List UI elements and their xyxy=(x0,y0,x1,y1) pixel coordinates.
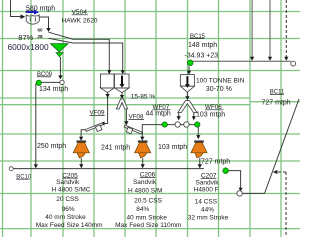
conveyor BC11 xyxy=(242,99,299,193)
arrowhead BC09 onto BC10 xyxy=(34,164,38,168)
arrowhead xyxy=(187,71,191,75)
surge bin right compartment xyxy=(115,74,130,93)
svg-text:100 TONNE BIN: 100 TONNE BIN xyxy=(196,78,245,85)
arrowhead xyxy=(120,95,124,99)
wire to C207 xyxy=(197,127,198,135)
arrowhead xyxy=(284,57,288,61)
arrowhead xyxy=(198,164,202,168)
wire WF06 right leg xyxy=(193,113,195,117)
label BC15 xyxy=(185,34,219,60)
crusher C205 cone xyxy=(73,140,89,158)
wire WF07 right leg to VF08 xyxy=(125,110,127,122)
arrowhead deck2 xyxy=(121,70,125,74)
dashed wire onto BC15 xyxy=(285,0,287,57)
arrowhead xyxy=(192,116,196,120)
wire drum to screen xyxy=(39,17,49,28)
label V504 xyxy=(62,9,98,25)
wire C207 discharge xyxy=(199,158,201,165)
label 580 mtph xyxy=(26,5,55,12)
arrowhead xyxy=(141,164,145,168)
label BC09 xyxy=(37,72,53,78)
label VF09 xyxy=(90,110,106,117)
green status dot BC10 discharge xyxy=(223,168,229,174)
label WF07 xyxy=(146,104,171,118)
label WF06 xyxy=(196,104,225,119)
svg-text:148 mtph: 148 mtph xyxy=(188,42,217,49)
svg-text:40 mm Stroke: 40 mm Stroke xyxy=(126,215,167,222)
feeder VF08 xyxy=(124,125,142,134)
feeder VF09 xyxy=(86,123,104,132)
svg-text:HAWK 2620: HAWK 2620 xyxy=(62,18,98,25)
splitter WF07 chute xyxy=(116,99,127,109)
svg-text:20 CSS: 20 CSS xyxy=(56,196,79,203)
svg-text:H 4800 S/MC: H 4800 S/MC xyxy=(51,187,90,194)
svg-text:727 mtph: 727 mtph xyxy=(262,100,291,107)
gate circle 2 xyxy=(184,122,189,127)
svg-text:87%: 87% xyxy=(18,33,33,42)
arrowhead onto C206 xyxy=(140,137,144,141)
arrowhead xyxy=(79,164,83,168)
BC09 head pulley xyxy=(60,80,64,84)
svg-text:H 4800 S/M: H 4800 S/M xyxy=(128,187,162,194)
svg-text:250 mtph: 250 mtph xyxy=(37,143,66,150)
svg-text:Max Feed Size 140mm: Max Feed Size 140mm xyxy=(36,222,103,229)
feed wire 2 onto BC15 xyxy=(269,0,271,57)
gate circle 1 xyxy=(175,122,180,127)
crusher C207 cone xyxy=(191,140,207,158)
conveyor BC10 xyxy=(13,168,204,170)
green dot gate left xyxy=(162,122,167,127)
label VF08 xyxy=(129,114,145,121)
svg-text:Max Feed Size 110mm: Max Feed Size 110mm xyxy=(115,222,181,229)
label BC11 xyxy=(262,90,291,107)
wire triangle to BC09 pulley xyxy=(59,57,61,76)
svg-text:6000x1800: 6000x1800 xyxy=(8,42,49,52)
arrowhead recycle xyxy=(273,170,278,174)
svg-text:14 CSS: 14 CSS xyxy=(195,198,218,205)
svg-text:15-85 %: 15-85 % xyxy=(131,93,156,100)
wire VF09 to C205 xyxy=(81,130,86,137)
label BC10 xyxy=(16,174,32,180)
svg-text:Sandvik: Sandvik xyxy=(56,179,80,186)
svg-text:H4800 F: H4800 F xyxy=(194,186,219,193)
svg-text:727 mtph: 727 mtph xyxy=(201,158,230,165)
green dot gate right xyxy=(195,122,200,127)
wire right bin to splitter WF07 xyxy=(121,93,123,96)
surge bin left compartment xyxy=(101,74,115,93)
screen underflow green triangle xyxy=(51,44,69,57)
wire BC10 to BC11 xyxy=(228,171,240,188)
wire bin to splitter WF06 xyxy=(186,92,188,96)
svg-text:Sandvik: Sandvik xyxy=(133,179,157,186)
wire C206 discharge xyxy=(142,158,144,165)
svg-text:Sandvik: Sandvik xyxy=(195,179,219,186)
100 tonne bin xyxy=(180,75,194,93)
svg-text:30-70 %: 30-70 % xyxy=(206,86,232,93)
gate wire row xyxy=(162,124,197,126)
wire WF06 left leg xyxy=(178,113,180,117)
arrowhead onto C207 xyxy=(196,135,200,139)
arrowhead xyxy=(185,96,189,100)
bin level arrow xyxy=(185,76,190,88)
arrowhead xyxy=(268,57,272,61)
deck labels 60 28 xyxy=(38,28,44,40)
BC11 tail pulley xyxy=(237,191,242,196)
arrowhead feed xyxy=(21,14,26,19)
feeder drum xyxy=(26,15,39,24)
conveyor BC09 xyxy=(36,82,60,164)
arrowhead onto VF09 xyxy=(100,121,104,125)
arrowhead onto BC09 xyxy=(58,75,62,79)
arrowhead onto C205 xyxy=(79,137,83,141)
arrowhead onto BC11 xyxy=(239,188,243,192)
svg-text:28: 28 xyxy=(38,34,44,39)
C205 text block xyxy=(36,172,103,229)
svg-text:60: 60 xyxy=(38,28,44,33)
green status dot BC09 xyxy=(36,80,41,85)
feed wire 1 onto BC15 xyxy=(251,0,253,57)
svg-text:40 mm Stroke: 40 mm Stroke xyxy=(45,214,86,221)
right bin level arrow xyxy=(120,76,125,88)
blue arrow xyxy=(26,10,39,15)
green status dot BC15 xyxy=(188,60,194,66)
wire C205 discharge xyxy=(80,158,82,165)
BC15 head pulley xyxy=(291,61,296,66)
wire BC15 discharge into bin xyxy=(188,66,190,71)
svg-text:103 mtph: 103 mtph xyxy=(196,112,225,119)
svg-text:84%: 84% xyxy=(136,206,149,213)
splitter WF06 chute xyxy=(178,101,197,113)
screen deck 2 wire into right bin xyxy=(49,38,123,70)
svg-text:103 mtph: 103 mtph xyxy=(158,144,187,151)
conveyor BC15 belt xyxy=(193,60,291,62)
arrowhead xyxy=(177,116,181,120)
crusher C206 cone xyxy=(135,140,151,158)
wire feed into V504 xyxy=(11,0,21,17)
arrowhead xyxy=(250,57,254,61)
svg-text:20.5 CSS: 20.5 CSS xyxy=(134,197,162,204)
BC10 tail pulley xyxy=(9,167,13,171)
C207 text block xyxy=(188,173,229,222)
wire junction to C206 xyxy=(142,125,162,137)
svg-text:241 mtph: 241 mtph xyxy=(101,145,130,152)
dashed recycle wire xyxy=(278,172,287,237)
svg-text:32 mm Stroke: 32 mm Stroke xyxy=(188,214,229,221)
screen deck 1 wire into left bin xyxy=(49,32,110,70)
C206 text block xyxy=(115,172,181,229)
arrowhead onto VF08 xyxy=(124,121,128,125)
arrowhead deck1 xyxy=(107,70,111,74)
svg-text:-34.93 +23: -34.93 +23 xyxy=(185,52,219,59)
svg-text:134 mtph: 134 mtph xyxy=(39,86,68,93)
arrowhead down on drop xyxy=(106,94,110,98)
svg-text:44 mtph: 44 mtph xyxy=(146,111,171,118)
svg-text:96%: 96% xyxy=(62,206,75,213)
svg-text:44%: 44% xyxy=(201,207,214,214)
label 100 TONNE BIN xyxy=(196,78,245,94)
wire left bin to VF09 xyxy=(104,93,108,124)
arrowhead onto screen xyxy=(46,28,50,32)
